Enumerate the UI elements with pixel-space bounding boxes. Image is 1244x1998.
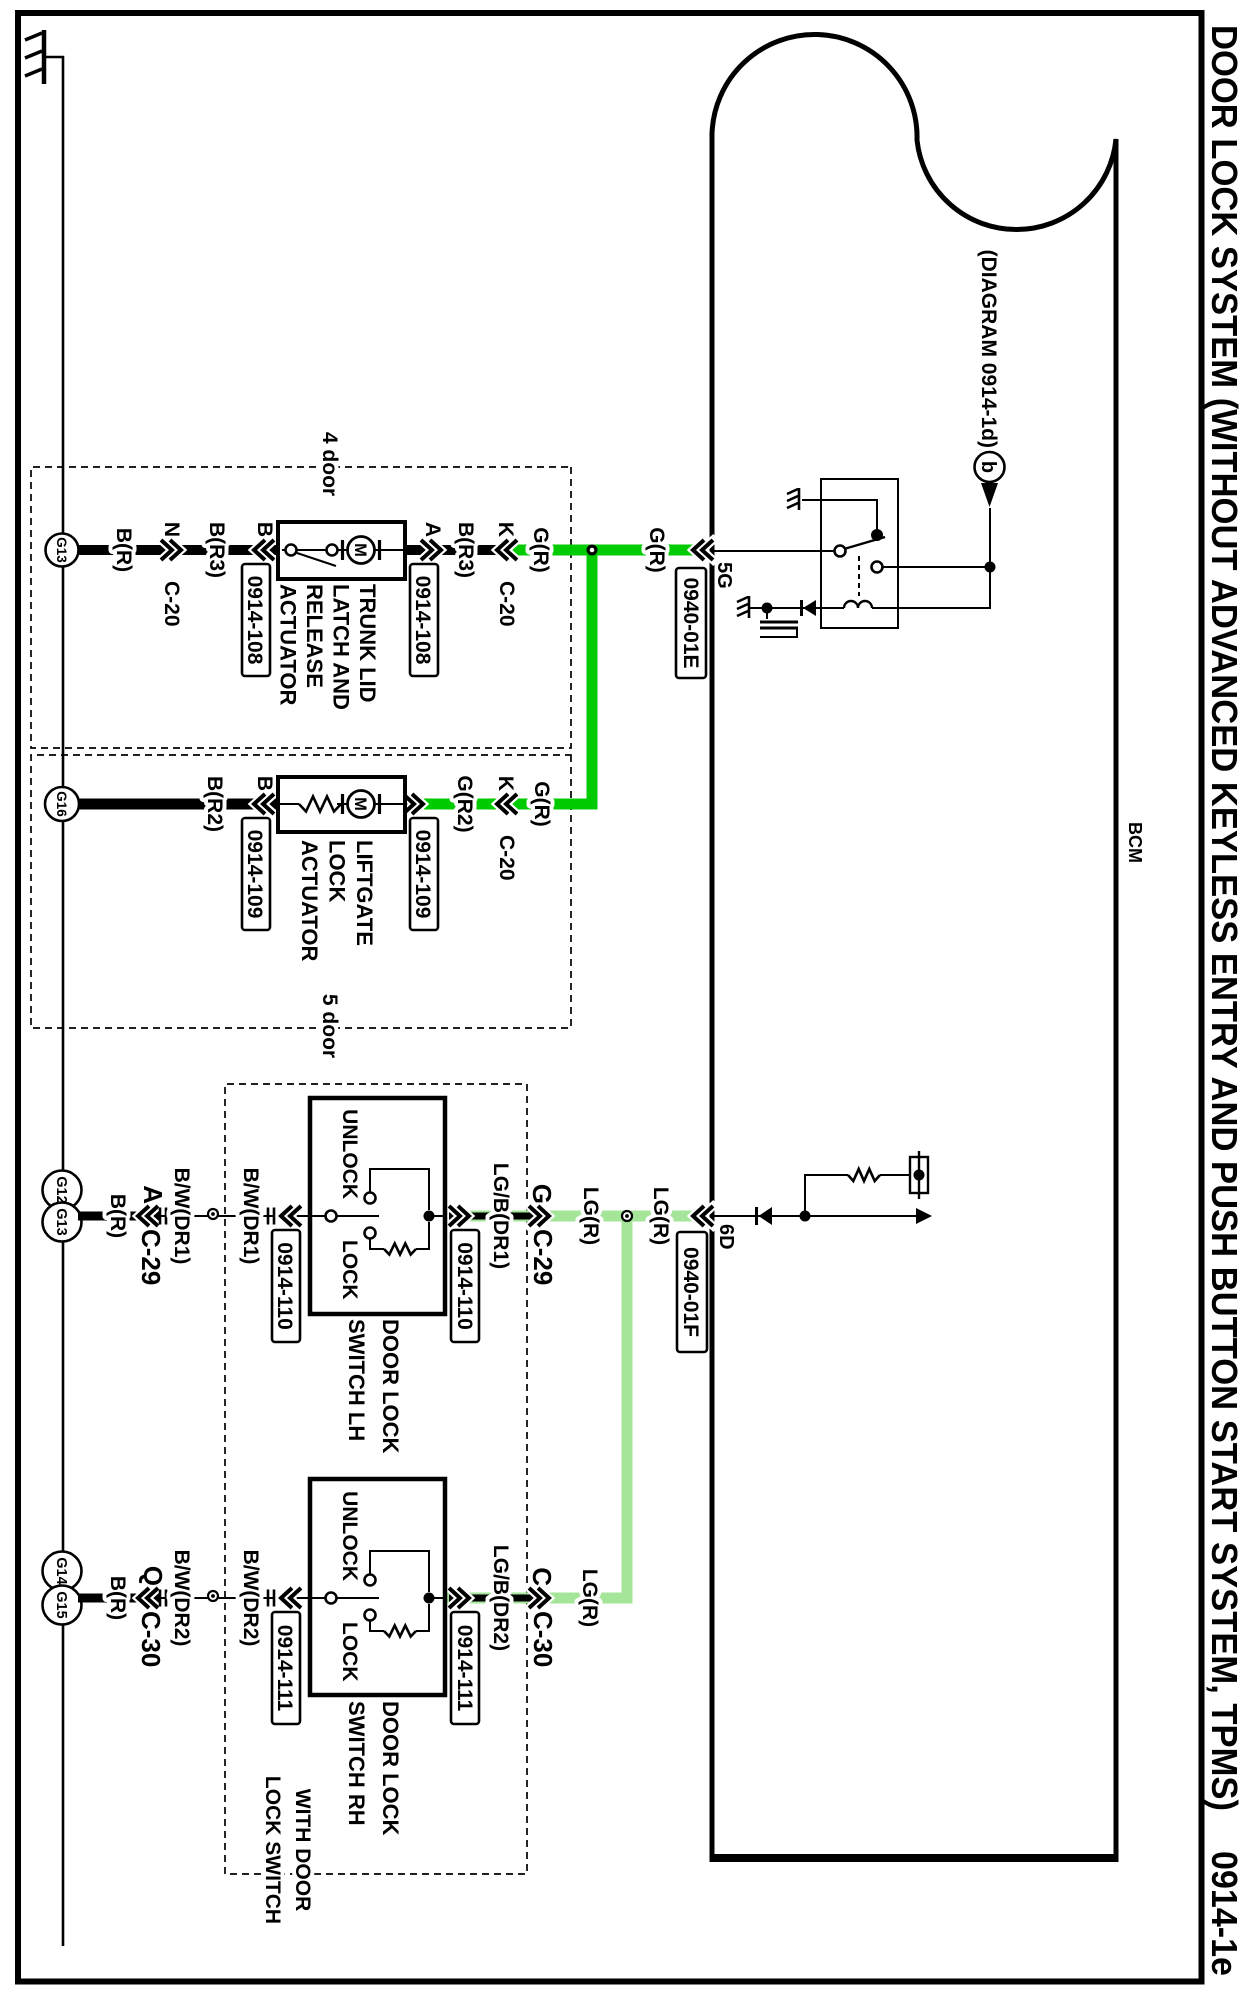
- svg-text:G15: G15: [53, 1591, 69, 1618]
- svg-text:(DIAGRAM 0914-1d): (DIAGRAM 0914-1d): [977, 250, 1000, 448]
- svg-text:B: B: [253, 522, 276, 537]
- svg-text:C-30: C-30: [136, 1611, 166, 1667]
- svg-text:0940-01E: 0940-01E: [679, 577, 702, 668]
- junction node relay: [985, 562, 996, 573]
- connector label 0914-110 lower: [272, 1230, 300, 1342]
- grounds G12 G13: [43, 1171, 82, 1210]
- svg-text:5 door: 5 door: [318, 994, 341, 1058]
- svg-text:B(R3): B(R3): [454, 522, 477, 578]
- svg-text:K: K: [494, 776, 517, 791]
- svg-text:0914-1e: 0914-1e: [1204, 1851, 1244, 1976]
- wire to driver ground: [750, 607, 767, 609]
- svg-text:G(R): G(R): [530, 781, 553, 827]
- circled b: [975, 452, 1005, 482]
- wire LG(R) row3 light green: [449, 1211, 699, 1222]
- junction node LG(R): [622, 1211, 632, 1221]
- svg-text:G: G: [527, 1184, 557, 1204]
- svg-text:0914-111: 0914-111: [453, 1625, 476, 1712]
- svg-text:TRUNK LID: TRUNK LID: [355, 584, 380, 703]
- RH lock contact path with resistor: [370, 1604, 429, 1631]
- junction node driver: [762, 603, 773, 614]
- wire into BCM pin 5G: [712, 550, 835, 552]
- branch with resistor: [805, 1175, 910, 1216]
- svg-text:ACTUATOR: ACTUATOR: [276, 584, 301, 706]
- svg-text:C-20: C-20: [495, 835, 518, 881]
- svg-text:B/W(DR1): B/W(DR1): [170, 1168, 193, 1265]
- connector label 0914-109 lower: [242, 818, 270, 930]
- wire B/W(DR1): [154, 1215, 310, 1217]
- connector 0940-01E into BCM: [693, 540, 713, 560]
- connector label 0914-111 lower: [272, 1612, 300, 1724]
- connector A out of trunk actuator: [421, 540, 441, 560]
- svg-text:G16: G16: [54, 791, 69, 817]
- svg-text:0914-108: 0914-108: [243, 576, 266, 665]
- relay coil: [844, 601, 872, 608]
- LH output node: [424, 1211, 435, 1222]
- svg-text:0940-01F: 0940-01F: [679, 1247, 702, 1337]
- svg-text:A: A: [138, 1185, 168, 1204]
- dashed box 5 door: [31, 755, 571, 1028]
- relay common contact: [835, 546, 846, 557]
- connector out of liftgate actuator: [403, 794, 423, 814]
- RH unlock contact: [365, 1575, 376, 1586]
- svg-text:M: M: [351, 543, 369, 557]
- svg-text:C-20: C-20: [160, 581, 183, 627]
- svg-text:LG/B(DR2): LG/B(DR2): [489, 1545, 512, 1651]
- grounds G14 G15: [43, 1552, 82, 1591]
- svg-text:C-20: C-20: [495, 581, 518, 627]
- svg-text:ACTUATOR: ACTUATOR: [297, 840, 322, 962]
- svg-text:RELEASE: RELEASE: [302, 584, 327, 688]
- svg-text:C-29: C-29: [136, 1229, 166, 1285]
- svg-text:G(R): G(R): [645, 527, 668, 573]
- transistor relay driver: [766, 608, 768, 619]
- LH lock contact path with resistor: [370, 1222, 429, 1249]
- svg-text:LG(R): LG(R): [649, 1187, 672, 1245]
- connector B into liftgate actuator: [254, 794, 274, 814]
- ground relay driver: [737, 596, 749, 618]
- LH switch common: [326, 1211, 337, 1222]
- wire ground bus: [44, 57, 63, 1946]
- RH unlock contact path: [370, 1551, 429, 1592]
- svg-text:B: B: [253, 776, 276, 791]
- svg-text:WITH DOOR: WITH DOOR: [291, 1789, 314, 1911]
- connector A C-29: [138, 1206, 158, 1226]
- wire B(R) row4: [78, 1594, 159, 1603]
- liftgate lock actuator: [278, 777, 405, 832]
- ground G13: [46, 534, 79, 567]
- svg-text:LIFTGATE: LIFTGATE: [352, 840, 377, 946]
- svg-text:G12: G12: [53, 1176, 69, 1203]
- svg-text:4 door: 4 door: [318, 432, 341, 496]
- connector G C-29: [529, 1206, 549, 1226]
- junction node row3 BCM: [800, 1211, 811, 1222]
- arrow from diagram 0914-1d: [981, 483, 998, 507]
- svg-text:C: C: [527, 1567, 557, 1586]
- svg-text:LOCK: LOCK: [338, 1622, 361, 1682]
- terminal box: [910, 1157, 928, 1193]
- wire NC contact to ground: [802, 500, 877, 535]
- wire G(R) branch to liftgate: [416, 550, 592, 804]
- arrow up inside BCM: [916, 1208, 932, 1224]
- svg-text:LATCH AND: LATCH AND: [329, 584, 354, 710]
- svg-text:SWITCH RH: SWITCH RH: [344, 1701, 369, 1826]
- connector label 0914-109 upper: [410, 818, 438, 930]
- relay NO contact: [872, 562, 883, 573]
- svg-text:K: K: [494, 522, 517, 537]
- svg-text:B(R): B(R): [106, 1194, 129, 1238]
- svg-text:C-30: C-30: [528, 1611, 558, 1667]
- BCM module box: [712, 34, 1116, 1858]
- relay NC contact: [871, 529, 883, 541]
- ground in BCM relay: [787, 488, 799, 510]
- svg-text:SWITCH LH: SWITCH LH: [344, 1319, 369, 1441]
- wire LG/B(DR2) black overlay: [449, 1595, 543, 1602]
- connector into LH switch: [268, 1208, 274, 1225]
- dashed box 4 door: [31, 467, 571, 748]
- svg-text:G14: G14: [53, 1557, 69, 1584]
- svg-text:UNLOCK: UNLOCK: [338, 1491, 361, 1581]
- svg-text:0914-108: 0914-108: [411, 576, 434, 665]
- wire B(R2): [78, 799, 278, 810]
- connector out of LH switch: [449, 1206, 469, 1226]
- wire NO contact to node: [883, 566, 990, 568]
- connector 0940-01F into BCM: [693, 1206, 713, 1226]
- svg-text:BCM: BCM: [1125, 822, 1145, 863]
- door lock switch RH box: [310, 1479, 445, 1695]
- ground symbol main: [42, 30, 47, 84]
- svg-text:A: A: [421, 522, 444, 537]
- wire node to coil: [821, 508, 990, 608]
- svg-text:LG(R): LG(R): [578, 1569, 601, 1627]
- svg-text:0914-110: 0914-110: [273, 1242, 296, 1330]
- wire LG(R) branch to RH switch: [446, 1216, 627, 1598]
- connector K C-20: [497, 540, 517, 560]
- LH lock contact: [365, 1228, 376, 1239]
- svg-text:DOOR LOCK SYSTEM (WITHOUT ADVA: DOOR LOCK SYSTEM (WITHOUT ADVANCED KEYLE…: [1204, 25, 1244, 1811]
- svg-text:5G: 5G: [713, 562, 735, 589]
- flyback diode: [767, 607, 821, 609]
- svg-text:B/W(DR2): B/W(DR2): [239, 1550, 262, 1647]
- trunk lid latch and release actuator: [278, 522, 405, 579]
- dashed link blade to coil: [858, 556, 860, 596]
- door lock relay box: [821, 479, 898, 628]
- diode row3: [759, 1207, 773, 1225]
- svg-text:b: b: [977, 461, 999, 473]
- connector label 0914-108 lower: [242, 564, 270, 676]
- connector label 0914-108 upper: [410, 564, 438, 676]
- wire stub above liftgate box: [405, 799, 420, 809]
- connector out of RH switch: [449, 1588, 469, 1608]
- svg-text:LOCK: LOCK: [325, 840, 350, 902]
- svg-text:N: N: [160, 522, 183, 537]
- svg-text:LG(R): LG(R): [579, 1187, 602, 1245]
- svg-text:0914-110: 0914-110: [453, 1242, 476, 1330]
- junction splice row4: [208, 1591, 218, 1601]
- wire B(R3) upper row1: [405, 545, 507, 555]
- connector label 0914-110 upper: [451, 1230, 479, 1342]
- svg-text:0914-111: 0914-111: [273, 1625, 296, 1712]
- wire B(R) row3: [78, 1212, 159, 1221]
- RH lock contact: [365, 1610, 376, 1621]
- relay switch blade: [844, 537, 885, 549]
- svg-text:LOCK: LOCK: [338, 1240, 361, 1300]
- LH unlock contact path: [370, 1169, 429, 1210]
- connector K C-20 row2: [497, 794, 517, 814]
- RH switch common: [326, 1593, 337, 1604]
- svg-text:LG/B(DR1): LG/B(DR1): [489, 1163, 512, 1269]
- svg-text:0914-109: 0914-109: [411, 830, 434, 919]
- wire B/W(DR2): [154, 1597, 310, 1599]
- ground G16: [45, 787, 79, 821]
- svg-text:6D: 6D: [715, 1224, 737, 1250]
- LH unlock contact: [365, 1193, 376, 1204]
- svg-text:Q: Q: [138, 1566, 168, 1586]
- wire G(R) row1 green: [502, 545, 698, 556]
- dashed box with door lock switch: [225, 1084, 527, 1874]
- svg-text:G(R): G(R): [529, 527, 552, 573]
- svg-text:B/W(DR2): B/W(DR2): [170, 1550, 193, 1647]
- connector C C-30: [529, 1588, 549, 1608]
- wire B(R) row1: [78, 545, 278, 555]
- svg-text:G13: G13: [53, 1208, 69, 1235]
- svg-text:B(R): B(R): [106, 1576, 129, 1620]
- svg-text:C-29: C-29: [528, 1229, 558, 1285]
- connector Q C-30: [138, 1588, 158, 1608]
- svg-text:G13: G13: [54, 537, 69, 563]
- svg-text:G(R2): G(R2): [453, 775, 476, 832]
- svg-text:M: M: [351, 797, 369, 811]
- junction splice row3: [208, 1209, 218, 1219]
- connector into RH switch: [268, 1590, 274, 1607]
- svg-text:LOCK SWITCH: LOCK SWITCH: [261, 1776, 284, 1924]
- connector N C-20: [161, 540, 181, 560]
- svg-text:B(R2): B(R2): [203, 776, 226, 832]
- svg-text:B(R3): B(R3): [205, 522, 228, 578]
- svg-text:UNLOCK: UNLOCK: [338, 1109, 361, 1199]
- svg-text:DOOR LOCK: DOOR LOCK: [378, 1319, 403, 1454]
- junction node green row1: [587, 545, 598, 556]
- svg-text:B(R): B(R): [112, 528, 135, 572]
- connector label 0914-111 upper: [451, 1612, 479, 1724]
- door lock switch LH box: [310, 1098, 445, 1314]
- wire LG/B(DR1) black overlay: [449, 1213, 543, 1220]
- RH output node: [424, 1593, 435, 1604]
- svg-text:0914-109: 0914-109: [243, 830, 266, 919]
- connector B into trunk actuator: [254, 540, 274, 560]
- wire into BCM pin 6D: [712, 1215, 918, 1217]
- svg-text:B/W(DR1): B/W(DR1): [239, 1168, 262, 1265]
- svg-text:DOOR LOCK: DOOR LOCK: [378, 1701, 403, 1836]
